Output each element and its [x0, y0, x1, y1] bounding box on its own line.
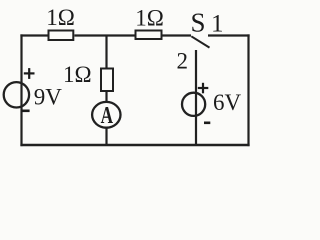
svg-text:A: A — [101, 101, 114, 129]
svg-text:1Ω: 1Ω — [46, 5, 75, 30]
svg-text:S: S — [191, 7, 206, 37]
svg-text:6V: 6V — [213, 90, 242, 115]
svg-text:9V: 9V — [34, 84, 63, 109]
svg-text:1Ω: 1Ω — [63, 62, 92, 87]
svg-text:1Ω: 1Ω — [135, 6, 164, 31]
svg-text:1: 1 — [211, 11, 224, 38]
svg-text:2: 2 — [177, 49, 189, 74]
